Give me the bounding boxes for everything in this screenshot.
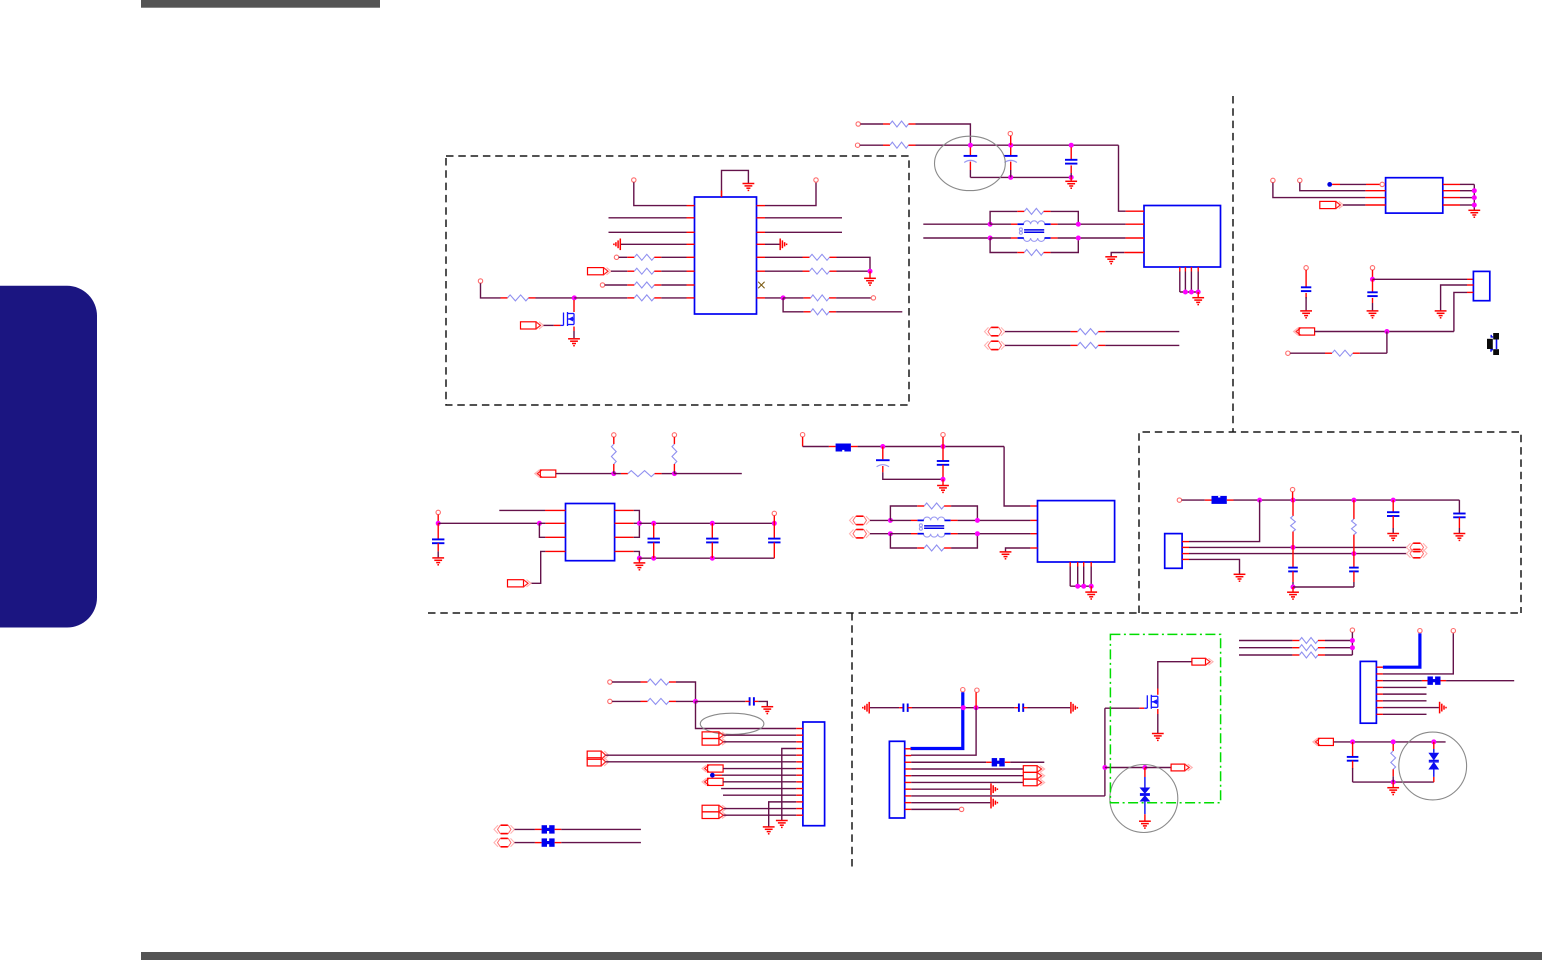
wire C1 to bottom rail	[969, 170, 971, 177]
wire R26 out	[1325, 640, 1352, 642]
capacitor C14	[1387, 512, 1399, 516]
wire J5 pin8 net	[1383, 713, 1427, 715]
ground (rotated, U1 R4)	[780, 239, 786, 251]
highlight circle (D1)	[1110, 765, 1178, 833]
chassis ground (left)	[863, 702, 869, 714]
U6 pin 4	[1030, 547, 1037, 549]
junction (P1)	[611, 471, 616, 476]
FB6 lead	[1441, 680, 1447, 682]
J4 pin 3	[905, 761, 912, 763]
port terminal (J3 pin2)	[702, 732, 726, 739]
FB6 lead	[1422, 680, 1428, 682]
ground (C15)	[1454, 534, 1466, 541]
terminal (out B)	[1407, 549, 1428, 557]
wire gate net to Q2	[1105, 707, 1140, 709]
C19 stub	[1352, 761, 1354, 769]
pin L8	[687, 297, 695, 299]
J1 pin 3	[1467, 291, 1473, 293]
junction (P2)	[672, 471, 677, 476]
wire junction	[1008, 143, 1013, 148]
choke lead	[1011, 223, 1017, 225]
wire upper bypass loop	[890, 506, 917, 520]
capacitor C17	[903, 704, 907, 712]
J5 pin 3	[1376, 680, 1383, 682]
wire to J3 pin8	[722, 774, 796, 776]
wire port to J3 pin5	[606, 754, 797, 756]
TVS stub	[1433, 742, 1435, 749]
dashed section divider (horizontal)	[428, 612, 1521, 614]
choke lead	[951, 533, 958, 535]
port terminal (node P)	[535, 470, 556, 477]
wire R6 to node H	[837, 257, 871, 271]
wire row 2 in	[1239, 647, 1292, 649]
C14 stub	[1392, 516, 1394, 528]
wire to R2	[611, 270, 627, 272]
terminal (in 1)	[608, 680, 612, 684]
resistor R17	[611, 437, 616, 471]
U5 pin 4	[545, 550, 565, 552]
wire junction	[1472, 188, 1477, 193]
C15 stub	[1458, 517, 1460, 528]
wire J5 pin6 net	[1383, 700, 1427, 702]
wire pair A	[870, 519, 890, 521]
left navy tab	[0, 286, 97, 628]
wire to Q1 gate	[544, 324, 554, 326]
highlight circle (D2)	[1399, 732, 1467, 800]
ferrite bead FB5	[992, 758, 1005, 766]
terminal B	[1298, 178, 1302, 182]
wire FB5 net	[1010, 761, 1044, 763]
C3 ground stub	[1070, 177, 1072, 181]
wire J5 pin4 net	[1383, 686, 1427, 688]
J4 pin 1	[905, 748, 912, 750]
terminal (row N)	[1286, 351, 1290, 355]
wire R24 to node	[676, 682, 696, 699]
J2 pin 1	[1182, 541, 1189, 543]
junction	[1291, 545, 1296, 550]
J3 pin 11	[796, 794, 803, 796]
TVS stub	[1144, 814, 1146, 821]
ground (U6 pin4)	[1000, 552, 1012, 559]
resistor R9	[804, 309, 837, 315]
pin R4	[757, 243, 766, 245]
wire chassis rail	[912, 707, 1015, 709]
wire U5 R2 out	[634, 522, 640, 524]
wire J5 pin3 to FB6	[1383, 680, 1422, 682]
ground (rotated, U1 L4)	[614, 239, 620, 251]
terminal (C5 top)	[1370, 266, 1374, 270]
wire junction	[1257, 498, 1262, 503]
wire upper bypass loop	[990, 211, 1017, 224]
capacitor C4	[1301, 287, 1311, 291]
terminal (net in 1)	[856, 122, 860, 126]
wire junction	[1075, 584, 1080, 589]
C2 stub	[1010, 147, 1012, 155]
bus wire (thick) J5 pin1	[1383, 633, 1420, 667]
C9 stub	[773, 523, 775, 538]
wire J2 pin2 to terminal	[1189, 546, 1407, 548]
C12 stub	[1292, 571, 1294, 582]
port terminal (net S)	[1313, 738, 1334, 745]
ground (U6 bottom)	[1085, 592, 1097, 599]
ground (Q2)	[1152, 734, 1164, 741]
wire C5 to ground	[1372, 303, 1374, 311]
terminal stub	[437, 515, 439, 524]
ground (C6)	[432, 558, 444, 565]
wire FB3 net	[561, 828, 641, 830]
C3 stub	[1070, 147, 1072, 160]
ground (J1 pin2)	[1435, 311, 1447, 318]
pin L7	[687, 284, 695, 286]
ground stub	[869, 271, 871, 278]
green dash-dot box (load switch)	[1110, 634, 1220, 802]
wire to U3 pin1	[1340, 183, 1366, 185]
wire U5 pin3 feed	[539, 523, 545, 537]
junction (bus cross, overlay)	[961, 705, 966, 710]
pin L6	[687, 270, 695, 272]
junction (rail A left)	[988, 222, 993, 227]
wire S ground rail	[1353, 781, 1434, 783]
J3 pin 13	[796, 808, 803, 810]
capacitor C16	[750, 697, 754, 705]
terminal (5V in)	[800, 433, 804, 437]
terminal stub	[802, 437, 804, 447]
wire R2 to U1	[661, 270, 686, 272]
terminal (row R8)	[871, 296, 875, 300]
capacitor C13	[1349, 568, 1359, 572]
wire node Q to J3 pin1	[696, 701, 797, 728]
ground (U5)	[634, 563, 646, 570]
C2 stub	[1010, 162, 1012, 170]
FB1 lead	[851, 446, 858, 448]
J3 pin 12	[796, 801, 803, 803]
wire port to J1 pin3	[1315, 331, 1454, 333]
J5 pin 7	[1376, 707, 1383, 709]
wire row 1 in	[1239, 640, 1292, 642]
ferrite bead FB1	[836, 444, 851, 452]
terminal (pull-up)	[1350, 628, 1354, 632]
C8 stub	[711, 542, 713, 558]
C2 stub	[1010, 136, 1012, 145]
wire junction	[1431, 739, 1436, 744]
ground stub	[1292, 587, 1294, 592]
wire upper loop to rail	[1051, 211, 1079, 222]
wire junction	[772, 521, 777, 526]
choke lead	[911, 519, 917, 521]
resistor R21	[917, 545, 951, 551]
wire to U5 pin2	[539, 522, 545, 524]
wire rail down to U6 pin1	[1004, 447, 1030, 507]
wire rail B	[990, 237, 1011, 239]
wire port to J3 pin14	[724, 814, 797, 816]
U2 bottom pin 2	[1184, 267, 1186, 272]
U3 pin R1	[1443, 183, 1460, 185]
wire junction	[1291, 498, 1296, 503]
wire U5 R1 to out node	[634, 510, 640, 521]
U5 pin R1	[615, 509, 634, 511]
resistor R1	[627, 254, 661, 260]
J5 pin 8	[1376, 713, 1383, 715]
ground (node H)	[864, 278, 876, 285]
resistor R4	[501, 295, 536, 301]
resistor R10	[883, 121, 916, 127]
J3 pin 9	[796, 781, 803, 783]
wire port to node P1	[556, 473, 614, 475]
port terminal (J3 pin5)	[587, 751, 609, 759]
C4 stub	[1305, 270, 1307, 287]
wire J4 pin3 to FB5	[911, 761, 986, 763]
wire to chassis right	[1028, 707, 1071, 709]
wire R9 net stub	[836, 311, 902, 313]
FB5 lead	[986, 761, 992, 763]
wire J5 pin5 net	[1383, 693, 1427, 695]
ground (U2 pin4)	[1105, 257, 1117, 264]
FB2 lead	[1205, 499, 1212, 501]
wire terminal A to U3 pin3	[1273, 183, 1366, 198]
wire C6 to ground	[437, 551, 439, 557]
common-mode choke L1	[1019, 221, 1044, 242]
J3 pin 7	[796, 768, 803, 770]
wire J2 pin4 to ground	[1189, 559, 1240, 574]
J4 pin 7	[905, 788, 912, 790]
port terminal (row L6)	[588, 268, 612, 275]
wire pull-up common	[1351, 632, 1353, 655]
resistor R20	[917, 503, 951, 509]
wire lower loop to rail	[951, 536, 977, 548]
wire junction	[1081, 584, 1086, 589]
wire to R24	[612, 681, 640, 683]
wire U1 pin R8	[765, 297, 783, 299]
U2 pin 4	[1124, 252, 1144, 254]
connector J5	[1360, 661, 1376, 723]
U3 pin R2	[1443, 190, 1460, 192]
wire upper loop to rail	[951, 506, 977, 518]
ground (S rail)	[1387, 788, 1399, 795]
wire U2 bottom pin 3	[1190, 272, 1192, 293]
resistor R16	[1325, 350, 1360, 356]
blue dot (net marker)	[1327, 182, 1332, 187]
wire power rail	[916, 144, 1119, 146]
wire U1 R1 to terminal	[765, 182, 816, 205]
Q2 source stub	[1157, 709, 1159, 714]
wire U6 pin4 to ground	[1006, 548, 1031, 552]
pin R3	[757, 231, 766, 233]
ground stub	[942, 479, 944, 485]
wire U6 bottom pin 1	[1069, 567, 1071, 587]
J4 pin 10	[905, 808, 912, 810]
bus wire (thick) J4 pin1	[911, 692, 963, 748]
capacitor C12	[1288, 568, 1298, 572]
wire to R3	[605, 284, 628, 286]
U5 pin 2	[545, 522, 565, 524]
pin L5	[687, 256, 695, 258]
wire node Q to C16	[696, 700, 746, 702]
wire U2 bottom pin 2	[1184, 272, 1186, 293]
wire to FB4	[515, 842, 535, 844]
wire choke rail A in	[923, 223, 990, 225]
wire J4 pin6 to port	[911, 781, 1023, 783]
U2 bottom pin 4	[1197, 267, 1199, 272]
ferrite bead FB4	[542, 838, 555, 846]
wire VIN rail	[438, 522, 539, 524]
port terminal (J3 pin14)	[702, 812, 726, 819]
pin L3	[687, 231, 695, 233]
pin R1	[757, 205, 766, 207]
resistor R5	[627, 295, 661, 301]
wire U1 pin L3	[609, 231, 687, 233]
wire cap ground rail	[639, 557, 774, 559]
C17 lead	[899, 707, 903, 709]
wire junction	[1472, 203, 1477, 208]
wire rail B	[890, 533, 911, 535]
Q2 gate stub	[1139, 707, 1144, 709]
terminal stub	[773, 516, 775, 524]
J4 pin 2	[905, 755, 912, 757]
wire TVS node	[1105, 767, 1145, 769]
U2 bottom pin 3	[1190, 267, 1192, 272]
wire F rail	[1234, 499, 1460, 501]
wire junction	[710, 556, 715, 561]
wire FB6 net	[1446, 680, 1514, 682]
common-mode choke L2	[919, 517, 944, 537]
J3 pin 4	[796, 748, 803, 750]
ground (C14)	[1387, 534, 1399, 541]
wire C2 to bottom rail	[1010, 170, 1012, 177]
wire junction	[1008, 175, 1013, 180]
wire TVS down	[1433, 770, 1435, 777]
capacitor C3	[1065, 160, 1077, 164]
terminal stub	[942, 437, 944, 447]
junction (rail B left)	[888, 531, 893, 536]
terminal (rail in)	[1177, 498, 1181, 502]
terminal (C4 top)	[1304, 266, 1308, 270]
U3 pin 3	[1365, 197, 1385, 199]
wire junction	[1069, 175, 1074, 180]
port terminal (J3 pin6)	[587, 758, 609, 766]
wire terminal B to J4 pin2	[911, 708, 976, 756]
C14 stub	[1392, 500, 1394, 512]
resistor R11	[883, 142, 916, 148]
resistor R18	[621, 471, 662, 477]
wire C12 down	[1292, 582, 1294, 587]
C6 stub	[437, 543, 439, 551]
terminal (row R1)	[814, 178, 818, 182]
J2 pin 3	[1182, 553, 1189, 555]
wire P1 to R18	[614, 473, 621, 475]
J3 pin 14	[796, 814, 803, 816]
terminal stub	[975, 692, 977, 707]
wire lower bypass loop	[890, 534, 917, 548]
wire J4 pin7	[911, 788, 990, 790]
ground (D1)	[1139, 821, 1151, 828]
TVS diode D1	[1140, 788, 1151, 802]
terminal (R22 top)	[1290, 487, 1294, 491]
wire net S rail	[1334, 741, 1446, 743]
J5 pin 6	[1376, 700, 1383, 702]
wire rail A to U6	[958, 519, 1031, 521]
junction (rail A left)	[888, 518, 893, 523]
FB1 lead	[829, 446, 836, 448]
highlight ellipse (J3 pin1 wire)	[700, 713, 764, 734]
wire 5V rail	[858, 446, 1005, 448]
ground (C10/C11)	[937, 486, 949, 493]
wire U3 R4	[1460, 204, 1474, 206]
wire C5 node to U4	[1373, 278, 1468, 280]
choke lead	[1011, 237, 1017, 239]
J4 pin 8	[905, 795, 912, 797]
wire C10 to gnd rail	[883, 472, 943, 479]
wire U2 bottom bus	[1180, 291, 1198, 293]
terminal (pair B)	[850, 530, 871, 538]
wire J5 pin7	[1383, 707, 1439, 709]
wire U5 pin4 to port	[531, 551, 546, 583]
pin L2	[687, 217, 695, 219]
junction (rail B right)	[1076, 236, 1081, 241]
wire R28 out	[1325, 654, 1352, 656]
port terminal (Q2 drain)	[1192, 658, 1213, 665]
FB5 lead	[1005, 761, 1011, 763]
U6 bottom pin 3	[1083, 562, 1085, 567]
port terminal (J4 pin4)	[1023, 766, 1044, 773]
TVS diode D2	[1428, 753, 1439, 770]
resistor R22	[1291, 500, 1296, 547]
wire junction	[1069, 143, 1074, 148]
ground (Q1 source)	[568, 339, 580, 346]
FB4 lead	[555, 842, 562, 844]
ground (U1 top)	[743, 184, 755, 191]
C9 stub	[773, 542, 775, 558]
terminal (pair A)	[850, 516, 871, 524]
junction (bus cross)	[961, 705, 966, 710]
capacitor C2 (polarized)	[1004, 156, 1018, 163]
resistor R3	[627, 282, 661, 288]
junction (F gnd rail)	[1291, 585, 1296, 590]
J5 pin 2	[1376, 673, 1383, 675]
terminal (row L7)	[600, 283, 604, 287]
wire junction	[1391, 498, 1396, 503]
wire C4 to ground	[1305, 297, 1307, 311]
wire rail A	[990, 223, 1011, 225]
ground (U2 bottom)	[1192, 298, 1204, 305]
blue dot (J3 pin8)	[710, 773, 715, 778]
J3 pin 6	[796, 761, 803, 763]
wire to R11	[860, 144, 883, 146]
C1 stub	[969, 162, 971, 170]
resistor R2	[627, 268, 661, 274]
wire from blue dot	[1332, 183, 1340, 185]
C4 stub	[1305, 293, 1307, 299]
wire R10 to cap node	[916, 124, 971, 145]
wire junction	[710, 521, 715, 526]
wire to FB3	[515, 828, 535, 830]
C6 stub	[437, 523, 439, 539]
dashed section box (top-left)	[446, 156, 909, 405]
terminal (VOUT)	[772, 511, 776, 515]
wire U5 R4 to gnd rail	[634, 551, 640, 558]
IC U1	[695, 197, 757, 314]
terminal (bus)	[1418, 629, 1422, 633]
wire R29 down	[1392, 776, 1394, 782]
terminal (diff pair A)	[985, 327, 1006, 335]
C17 lead	[908, 707, 912, 709]
terminal (J4 pin10)	[959, 807, 963, 811]
wire R16 to node M	[1360, 352, 1387, 354]
Q1 drain stub	[573, 300, 575, 312]
wire J3 pin11 net	[723, 794, 796, 796]
C10 stub	[882, 447, 884, 460]
ground (J3 pin12)	[763, 827, 775, 834]
wire to R16	[1290, 352, 1325, 354]
